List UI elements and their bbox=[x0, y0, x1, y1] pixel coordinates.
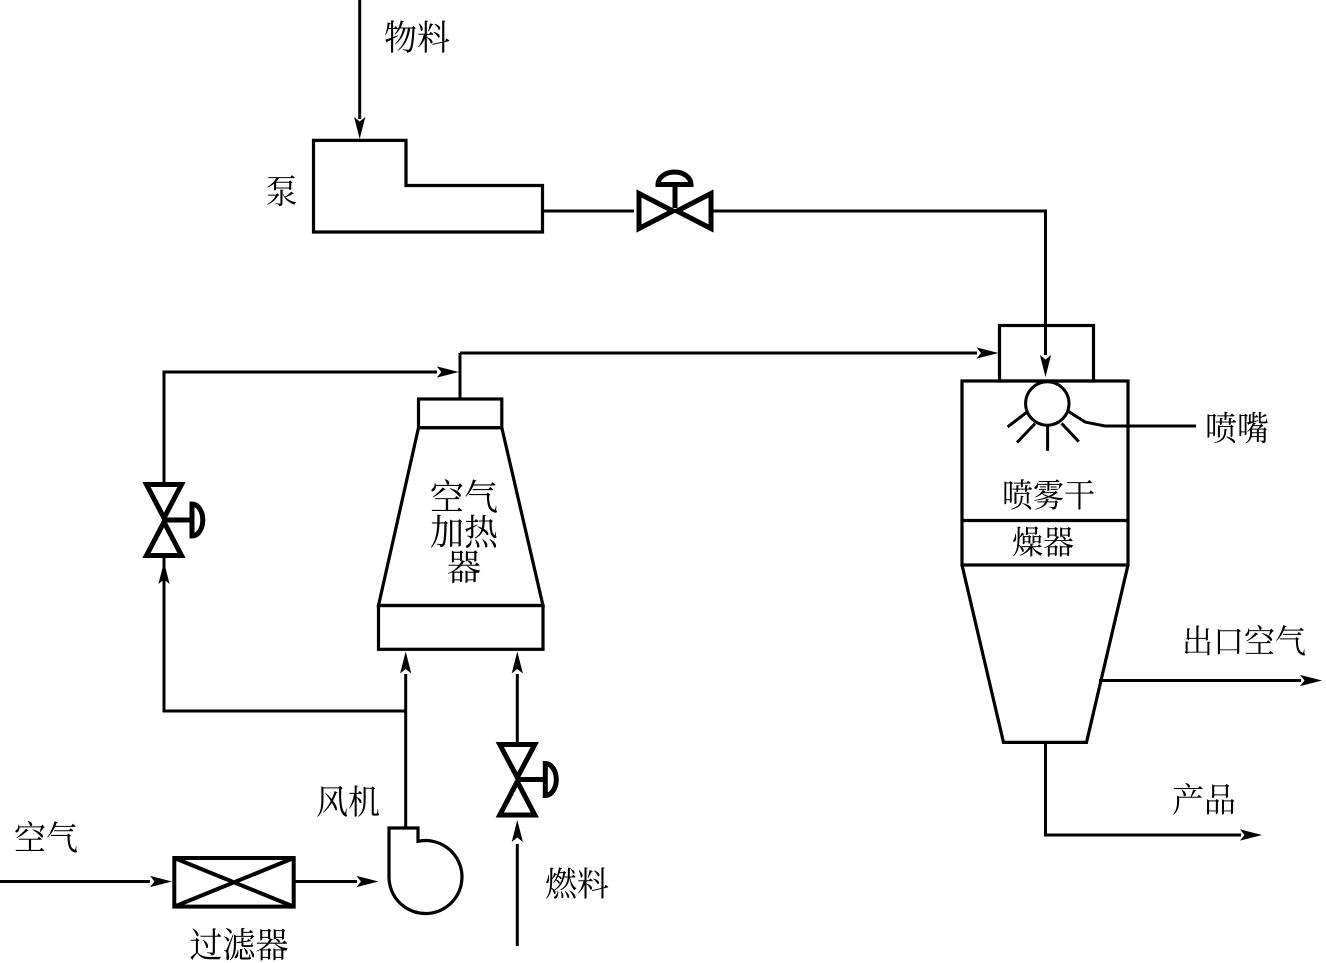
dryer top inlet box bbox=[1000, 326, 1094, 382]
arrowhead feed into dryer bbox=[1040, 355, 1051, 377]
label beng (pump): 泵 bbox=[267, 175, 296, 206]
label kongqi in heater: 空气 bbox=[431, 479, 497, 513]
arrowhead fuel into heater bbox=[512, 652, 523, 674]
arrowhead air into filter bbox=[150, 876, 172, 887]
filter to fan line bbox=[294, 880, 357, 883]
hot air line from heater to dryer bbox=[460, 352, 977, 355]
fan discharge riser into heater bbox=[404, 674, 407, 828]
bypass line: valve V2 up and right to riser bbox=[164, 372, 437, 484]
label penwugan (spray dry-): 喷雾干 bbox=[1004, 479, 1093, 509]
nozzle spray rays bbox=[1008, 413, 1027, 427]
dryer cone bbox=[962, 565, 1128, 742]
fuel line below bbox=[516, 844, 519, 946]
arrowhead air into fan bbox=[357, 876, 379, 887]
arrowhead product bbox=[1240, 829, 1262, 840]
air inlet line bbox=[0, 880, 150, 883]
valve V1 on pump discharge (globe valve with diaphragm) bbox=[639, 172, 711, 229]
pump outlet line bbox=[543, 210, 635, 213]
filter box bbox=[174, 858, 293, 907]
bypass return line from fan riser bbox=[164, 556, 406, 711]
material feed line bbox=[358, 0, 361, 119]
valve V3 (fuel, vertical) bbox=[500, 745, 557, 816]
filter X diagonals bbox=[174, 858, 293, 907]
arrowhead hot air into dryer top box bbox=[977, 347, 999, 358]
heater riser to top line bbox=[459, 353, 462, 399]
label ranliao (fuel): 燃料 bbox=[546, 867, 608, 898]
nozzle leader line to label bbox=[1068, 411, 1196, 426]
label zaoqi (-er): 燥器 bbox=[1013, 526, 1073, 556]
fuel line valve to heater bbox=[516, 674, 519, 744]
label penzui (nozzle): 喷嘴 bbox=[1208, 412, 1268, 444]
outlet air line bbox=[1099, 679, 1301, 682]
spray nozzle circle bbox=[1026, 382, 1069, 425]
arrowhead fuel into valve V3 bbox=[512, 820, 523, 842]
arrowhead air into heater bbox=[400, 652, 411, 674]
label fengji (fan): 风机 bbox=[317, 785, 379, 816]
dryer internal line upper bbox=[962, 519, 1128, 522]
product line bbox=[1046, 742, 1242, 835]
pump (L-shaped body) bbox=[314, 140, 543, 232]
label kongqi (air): 空气 bbox=[15, 821, 77, 853]
spray dryer body bbox=[962, 381, 1128, 565]
arrowhead outlet air bbox=[1300, 675, 1322, 686]
air heater bottom box bbox=[379, 606, 544, 650]
arrowhead bypass into riser bbox=[437, 366, 459, 377]
air heater top box bbox=[419, 399, 502, 428]
label qi in heater: 器 bbox=[448, 550, 480, 583]
air heater trapezoid body bbox=[379, 428, 544, 606]
label chanpin (product): 产品 bbox=[1173, 783, 1234, 815]
fan (blower volute) bbox=[389, 828, 462, 914]
arrowhead material into pump bbox=[354, 117, 365, 139]
label jiare in heater: 加热 bbox=[431, 514, 497, 547]
arrowhead up into valve V2 bbox=[158, 562, 169, 584]
valve V2 (bypass, vertical) bbox=[147, 485, 203, 556]
line valve V1 to dryer top, with corner bbox=[713, 211, 1046, 355]
label wuliao (material): 物料 bbox=[385, 20, 449, 52]
label chukou kongqi (outlet air): 出口空气 bbox=[1185, 625, 1305, 656]
label guolvqi (filter): 过滤器 bbox=[190, 928, 287, 961]
